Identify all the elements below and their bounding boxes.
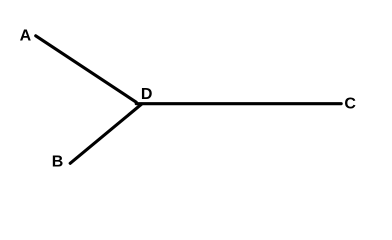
wire D-C [136,102,341,105]
wire B-D [70,104,142,163]
svg-text:B: B [52,153,64,170]
svg-text:C: C [344,95,356,112]
svg-text:A: A [20,27,32,44]
svg-text:D: D [141,86,153,103]
wire A-D [36,36,137,102]
